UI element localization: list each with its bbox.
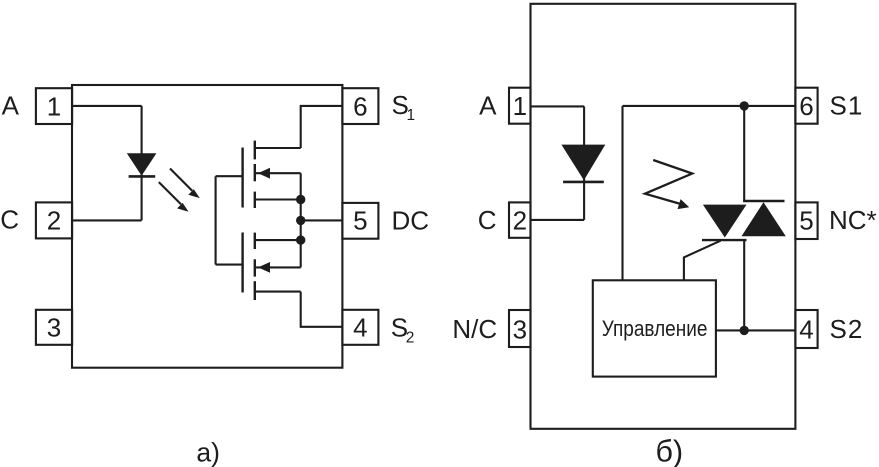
svg-text:S1: S1 [830, 91, 864, 121]
svg-text:1: 1 [513, 91, 527, 121]
pin 5 box (b) [795, 202, 817, 239]
wire common source vertical (a) [300, 173, 302, 267]
junction dot S2 node (b) [740, 326, 749, 335]
LED VD2 triangle (b) [561, 145, 605, 181]
wire pin1 to LED anode (b) [531, 105, 585, 107]
svg-text:5: 5 [353, 206, 367, 236]
MOSFET Q2 gate lead (a) [216, 264, 243, 266]
MOSFET Q1 gate lead (a) [216, 175, 243, 177]
pin 4 box (b) [795, 310, 817, 348]
MOSFET Q2 body stub (a) [255, 266, 301, 268]
wire drain Q2 to pin 4 (a) [301, 292, 343, 327]
svg-text:2: 2 [47, 206, 61, 236]
wire drain Q1 to pin 6 (a) [301, 106, 343, 148]
wire LED vertical (b) [583, 106, 585, 219]
triac VS1 down triangle (b) [703, 205, 747, 238]
wire pin1 to LED anode (a) [72, 105, 142, 107]
MOSFET Q1 body diode arrowhead (a) [258, 168, 270, 179]
junction dot node S-bottom (a) [296, 235, 305, 244]
svg-text:5: 5 [799, 205, 813, 235]
wire pin2 to LED cathode (a) [72, 219, 142, 221]
MOSFET Q2 drain stub (a) [255, 291, 301, 293]
svg-text:S2: S2 [830, 314, 864, 344]
pin 3 box (b) [509, 310, 531, 347]
LED VD1 cathode bar (a) [129, 175, 156, 178]
pin 2 box (b) [509, 202, 531, 237]
triac VS1 gate wire (b) [684, 241, 721, 281]
svg-text:A: A [2, 90, 20, 120]
gate bus wire (a) [215, 176, 217, 264]
junction dot node DC (a) [296, 216, 305, 225]
wire pin6 to internal node (b) [623, 105, 796, 107]
svg-text:1: 1 [407, 107, 416, 124]
light emission arrow 2 (a) [159, 182, 189, 212]
svg-text:NC*: NC* [829, 205, 877, 235]
package outline DA1 (a) [72, 85, 342, 368]
pin 1 box (a) [36, 88, 72, 124]
MOSFET Q2 source stub (a) [255, 239, 301, 241]
light emission arrow 1 (a) [170, 169, 200, 199]
wire control block to pin 4 (b) [716, 329, 796, 331]
triac VS1 up triangle (b) [742, 202, 786, 236]
pin 6 box (b) [795, 88, 817, 124]
pin 4 box (a) [342, 310, 378, 345]
svg-text:DC: DC [392, 206, 430, 236]
control block box (b) [593, 280, 716, 376]
svg-text:1: 1 [47, 91, 61, 121]
wire common node to pin 5 (a) [301, 219, 343, 221]
svg-text:A: A [479, 91, 497, 121]
svg-text:Управление: Управление [602, 316, 708, 341]
svg-text:2: 2 [513, 205, 527, 235]
MOSFET Q1 channel dashes (a) [254, 141, 256, 208]
triac VS1 top bar (b) [743, 200, 784, 202]
MOSFET Q2 body diode arrowhead (a) [258, 262, 270, 273]
MOSFET Q2 gate bar (a) [241, 233, 243, 293]
pin 6 box (a) [342, 88, 378, 124]
wire left vertical to control block (b) [621, 106, 623, 280]
MOSFET Q1 source stub (a) [255, 198, 301, 200]
MOSFET Q1 body stub (a) [255, 172, 301, 174]
MOSFET Q1 gate bar (a) [241, 148, 243, 208]
svg-text:4: 4 [799, 314, 813, 344]
package outline DA2 (b) [531, 4, 796, 429]
MOSFET Q2 channel dashes (a) [254, 233, 256, 300]
LED VD2 cathode bar (b) [563, 181, 604, 184]
junction dot pin6 node (b) [740, 101, 749, 110]
pin 5 box (a) [342, 203, 378, 239]
LED VD1 triangle (a) [127, 153, 157, 176]
pin 1 box (b) [509, 88, 531, 124]
svg-text:N/C: N/C [452, 314, 497, 344]
svg-text:6: 6 [799, 91, 813, 121]
wire triac MT1 vertical to S2 node (b) [743, 240, 745, 330]
svg-text:3: 3 [47, 313, 61, 343]
svg-text:C: C [478, 205, 497, 235]
wire pin2 to LED cathode (b) [531, 219, 585, 221]
svg-text:а): а) [196, 437, 220, 467]
light zigzag arrow (b) [645, 160, 692, 209]
pin 2 box (a) [36, 202, 72, 238]
svg-text:б): б) [655, 434, 683, 467]
triac VS1 bottom bar (b) [702, 239, 747, 241]
pin 3 box (a) [36, 310, 72, 345]
wire LED vertical (a) [141, 106, 143, 220]
junction dot node S-top (a) [296, 195, 305, 204]
svg-text:4: 4 [353, 313, 367, 343]
MOSFET Q1 drain stub (a) [255, 147, 301, 149]
wire triac MT2 vertical (b) [743, 106, 745, 201]
svg-text:6: 6 [353, 91, 367, 121]
svg-text:3: 3 [513, 314, 527, 344]
svg-text:C: C [0, 205, 19, 235]
svg-text:2: 2 [406, 329, 415, 346]
